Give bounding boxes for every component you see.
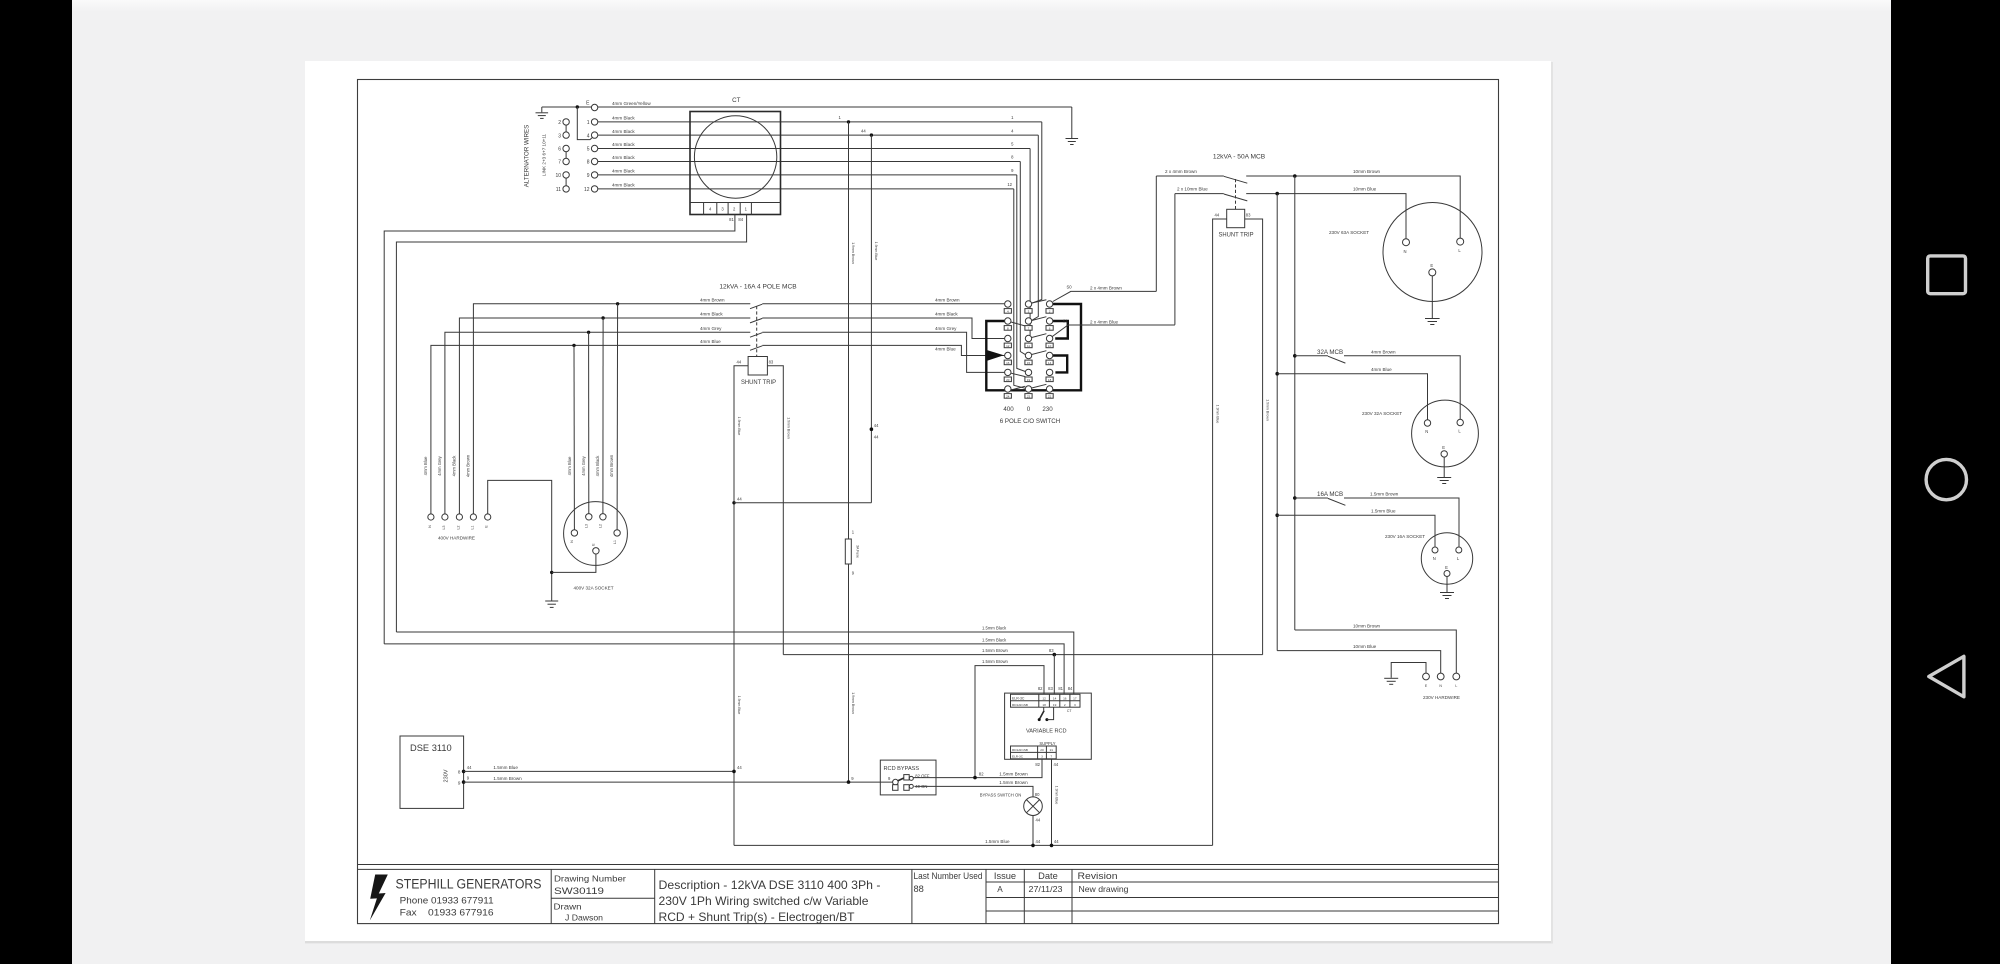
RCD BYPASS box	[880, 760, 936, 795]
wire 1 4mm Black	[598, 121, 1042, 123]
wire ELR 14 drop	[1053, 655, 1055, 695]
svg-text:N: N	[1403, 249, 1406, 254]
svg-text:STEPHILL GENERATORS: STEPHILL GENERATORS	[396, 877, 542, 892]
wire brown drop to socket L1	[616, 304, 619, 530]
ELR input terminal strip	[1011, 694, 1081, 707]
svg-text:6: 6	[558, 147, 561, 153]
ground (400V earth)	[545, 600, 558, 602]
wire 32A MCB input	[1295, 355, 1328, 357]
svg-text:7: 7	[558, 160, 561, 166]
node dot blue to socket N	[572, 344, 575, 347]
svg-text:N: N	[1433, 556, 1436, 561]
svg-text:44: 44	[874, 423, 879, 428]
wire E hardwire to earth riser	[488, 480, 552, 600]
svg-text:8: 8	[458, 769, 461, 774]
title block divider description/last-number	[911, 869, 913, 923]
title block divider drawing-number/description	[654, 869, 656, 923]
svg-text:BYPASS SWITCH ON: BYPASS SWITCH ON	[980, 792, 1022, 797]
svg-text:44: 44	[737, 497, 742, 502]
contact diagonal row5 col1-col2	[1011, 373, 1025, 376]
wire 1.5mm Brown 16A to socket L	[1344, 498, 1459, 547]
terminal 400V hardwire E	[485, 514, 491, 520]
svg-text:1: 1	[587, 120, 590, 126]
wire 10mm Blue from 50A MCB to 63A socket N	[1246, 194, 1406, 239]
ground (230V hardwire earth)	[1384, 677, 1398, 679]
wire supply 20 to bypass 82	[914, 759, 1043, 778]
svg-text:RD1AF1SB: RD1AF1SB	[1012, 703, 1028, 707]
svg-text:4mm Black: 4mm Black	[612, 129, 635, 134]
svg-text:1.5mm Brown: 1.5mm Brown	[999, 780, 1028, 785]
svg-text:230V: 230V	[444, 769, 450, 782]
wire 8 4mm Black	[598, 161, 1021, 163]
title block divider logo/drawing-number	[550, 869, 552, 923]
terminal 9	[591, 172, 597, 178]
svg-text:230V 32A SOCKET: 230V 32A SOCKET	[1362, 411, 1402, 416]
ground (63A socket earth)	[1425, 318, 1440, 320]
svg-text:1.9mm Brown: 1.9mm Brown	[851, 242, 855, 264]
node dot 32A feed	[1293, 354, 1297, 358]
svg-text:4mm Brown: 4mm Brown	[609, 454, 614, 477]
C/O terminal r2c1	[1005, 318, 1011, 324]
socket 400V pin L3	[586, 514, 592, 520]
svg-text:1.5mm Blue: 1.5mm Blue	[985, 839, 1010, 844]
terminal 11	[563, 186, 569, 192]
svg-text:Description - 12kVA DSE 3110 4: Description - 12kVA DSE 3110 400 3Ph -	[659, 879, 881, 892]
wire 4mm Black MCB out to C/O row3	[762, 318, 1004, 339]
busbar S1 link rows2-3 col3	[1053, 321, 1068, 339]
wire 4 drop into C/O	[1032, 135, 1039, 320]
svg-text:S0: S0	[1067, 285, 1073, 290]
svg-text:2 x 4mm Blue: 2 x 4mm Blue	[1090, 320, 1119, 325]
node dot line4 join	[973, 776, 977, 780]
wire 10mm Brown from 50A MCB to 63A socket L	[1246, 176, 1460, 238]
socket 32A pin N	[1424, 420, 1430, 426]
terminal 230V hardwire E	[1423, 673, 1430, 680]
wire 32A E to ground	[1443, 457, 1445, 477]
svg-text:44: 44	[874, 435, 879, 440]
breaker blade 16A	[1328, 498, 1346, 505]
svg-text:1.5mm Brown: 1.5mm Brown	[982, 648, 1009, 653]
wire E terminal to ground	[542, 106, 592, 108]
wire E branch to socket E pin	[552, 554, 596, 572]
svg-text:ELR-3C: ELR-3C	[1012, 755, 1024, 759]
wire net1 riser from wire1	[848, 122, 850, 539]
C/O terminal r5c1	[1005, 369, 1011, 375]
svg-text:82: 82	[1035, 762, 1040, 767]
wire 9 4mm Black	[598, 174, 1017, 176]
svg-text:12kVA - 16A 4 POLE MCB: 12kVA - 16A 4 POLE MCB	[719, 284, 797, 291]
svg-text:J Dawson: J Dawson	[565, 914, 603, 923]
svg-text:18: 18	[1048, 378, 1052, 382]
svg-text:4mm Brown: 4mm Brown	[935, 298, 960, 303]
terminal 400V hardwire L3	[442, 514, 448, 520]
wire 1.5mm Black line2 CT81 to ELR 16	[384, 644, 1064, 694]
socket 16A pin E	[1444, 571, 1450, 577]
svg-text:44: 44	[737, 360, 742, 365]
wire 4mm Brown 32A to socket L	[1344, 356, 1460, 420]
revision table row line 1	[986, 881, 1499, 883]
svg-text:10: 10	[555, 173, 561, 179]
C/O terminal r2c3	[1046, 318, 1052, 324]
node dot net9 riser join	[847, 780, 851, 784]
socket 400V pin E	[593, 548, 599, 554]
terminal 2	[563, 119, 569, 125]
svg-text:400V HARDWIRE: 400V HARDWIRE	[438, 536, 475, 541]
svg-text:DSE 3110: DSE 3110	[410, 743, 452, 753]
white PDF page	[305, 61, 1551, 942]
svg-text:3: 3	[1041, 755, 1043, 759]
svg-text:Last Number Used: Last Number Used	[914, 871, 983, 881]
wire 16A MCB input	[1295, 497, 1328, 499]
node dot 1.5mm blue 16A	[1275, 513, 1279, 517]
revision table row line 3	[986, 910, 1499, 912]
terminal 230V hardwire N	[1437, 673, 1444, 680]
svg-text:4mm Blue: 4mm Blue	[700, 339, 721, 344]
bypass common terminal	[893, 779, 899, 785]
terminal 400V hardwire N	[428, 514, 434, 520]
svg-text:L3: L3	[442, 526, 446, 530]
svg-text:19: 19	[1027, 378, 1031, 382]
terminal 10	[563, 172, 569, 178]
svg-text:1.5mm Blue: 1.5mm Blue	[493, 765, 518, 770]
svg-text:32A MCB: 32A MCB	[1317, 349, 1343, 356]
terminal 5	[591, 145, 597, 151]
socket 400V pin L2	[600, 514, 606, 520]
svg-text:20: 20	[1040, 748, 1044, 752]
svg-text:L2: L2	[599, 524, 603, 528]
svg-text:11: 11	[556, 187, 561, 193]
busbar link rows4-5 col3	[1053, 356, 1067, 373]
C/O terminal r6c2	[1025, 386, 1031, 392]
node dot 44 riser join	[732, 770, 736, 774]
svg-text:4mm Black: 4mm Black	[935, 312, 958, 317]
variable RCD outer box	[1005, 693, 1092, 759]
trip linkage dashed line 50A MCB	[1235, 179, 1237, 209]
logo lightning bolt	[370, 875, 388, 921]
svg-text:83: 83	[769, 360, 774, 365]
wire S0 diagonal and feed	[1053, 291, 1157, 301]
link wire 6-7	[565, 152, 567, 159]
svg-text:Drawn: Drawn	[554, 903, 583, 912]
svg-text:6 POLE C/O SWITCH: 6 POLE C/O SWITCH	[1000, 418, 1061, 425]
svg-text:Phone 01933 677911: Phone 01933 677911	[400, 896, 494, 906]
wire bypass ON to lamp	[914, 786, 1033, 797]
svg-text:80: 80	[1035, 792, 1040, 797]
C/O terminal r4c1	[1005, 352, 1011, 358]
wire 10mm brown riser upper	[1294, 176, 1296, 630]
svg-text:83: 83	[1246, 213, 1251, 218]
C/O terminal r3c1	[1005, 335, 1011, 341]
wire 2 x 4mm Brown into 50A MCB	[1156, 175, 1224, 177]
svg-text:Date: Date	[1038, 871, 1058, 881]
svg-text:10mm Blue: 10mm Blue	[1353, 644, 1377, 649]
C/O terminal r4c2	[1025, 352, 1031, 358]
wire 63A E to ground	[1431, 276, 1433, 318]
node dot black to socket L2	[601, 316, 604, 319]
svg-text:A: A	[997, 885, 1003, 894]
svg-text:230V 16A SOCKET: 230V 16A SOCKET	[1385, 534, 1425, 539]
svg-text:2 x 10mm Blue: 2 x 10mm Blue	[1177, 186, 1208, 191]
ground (E wire earth)	[1066, 138, 1079, 140]
C/O terminal r6c1	[1005, 386, 1011, 392]
wire 4mm Blue N feed	[431, 345, 750, 514]
wire 4mm Black L2 feed	[459, 318, 750, 514]
svg-text:20: 20	[1006, 378, 1010, 382]
svg-text:16: 16	[1006, 361, 1010, 365]
svg-text:81: 81	[1058, 686, 1063, 691]
wire 5 drop into C/O	[1029, 149, 1030, 338]
svg-text:3A Fuse: 3A Fuse	[856, 545, 860, 558]
breaker blade 50A pole 2	[1224, 194, 1248, 201]
wire 4mm Grey L3 feed	[445, 332, 750, 514]
svg-text:4mm Green/Yellow: 4mm Green/Yellow	[612, 101, 651, 106]
svg-text:1.9mm Blue: 1.9mm Blue	[1215, 405, 1219, 424]
DSE 3110 controller box	[400, 736, 464, 808]
svg-text:82: 82	[1038, 686, 1043, 691]
contact diagonal row2 col1-col2	[1011, 322, 1025, 326]
svg-text:RCD + Shunt Trip(s) - Electrog: RCD + Shunt Trip(s) - Electrogen/BT	[659, 911, 855, 924]
C/O terminal r1c1	[1005, 301, 1011, 307]
terminal 6	[563, 145, 569, 151]
230V 32A socket outline	[1412, 400, 1479, 467]
svg-text:82 OFF: 82 OFF	[915, 774, 930, 779]
svg-text:4mm Brown: 4mm Brown	[700, 298, 725, 303]
wire 4 4mm Black	[598, 134, 1039, 136]
breaker blade 50A pole 1	[1224, 176, 1248, 183]
wire DSE pin8 44 1.5mm Blue	[464, 770, 734, 772]
title block divider issue/date	[1023, 869, 1025, 923]
svg-text:1.5mm Blue: 1.5mm Blue	[1371, 509, 1396, 514]
svg-text:400V 32A SOCKET: 400V 32A SOCKET	[573, 586, 613, 591]
title block divider last-number/issue	[985, 869, 987, 923]
svg-text:4mm Grey: 4mm Grey	[581, 455, 586, 475]
contact diagonal row6 col1-col2	[1011, 386, 1025, 390]
bypass switch blade	[898, 778, 904, 781]
C/O terminal r2c2	[1025, 318, 1031, 324]
CT core circle	[694, 116, 776, 198]
svg-text:1.9mm Brown: 1.9mm Brown	[1265, 399, 1269, 421]
node dot 4mm blue 32A	[1275, 372, 1279, 376]
wire 10mm Blue to hardwire N	[1277, 651, 1441, 674]
bypass ON contact	[904, 785, 909, 791]
svg-text:16A MCB: 16A MCB	[1317, 491, 1343, 498]
node dot DSE pin8	[462, 770, 466, 774]
svg-text:4mm Brown: 4mm Brown	[1371, 349, 1396, 354]
svg-text:4mm Black: 4mm Black	[451, 455, 456, 477]
svg-text:Revision: Revision	[1078, 871, 1118, 881]
svg-text:L: L	[1455, 684, 1457, 688]
wire CT 81 to left riser	[384, 215, 735, 644]
shunt trip 2 coil box	[748, 357, 767, 376]
socket 400V pin N	[571, 530, 577, 536]
wire 1 drop into C/O	[1032, 122, 1042, 303]
svg-text:44: 44	[737, 765, 742, 770]
wire S1 diagonal and feed	[1050, 325, 1175, 339]
C/O terminal r5c3	[1046, 369, 1052, 375]
wire 16A E to ground	[1446, 577, 1448, 593]
svg-text:14: 14	[1053, 696, 1057, 700]
svg-text:19: 19	[1053, 703, 1057, 707]
wire E link down to terminal 4	[577, 107, 593, 140]
wire blue drop to socket N	[573, 345, 575, 529]
svg-text:8: 8	[587, 160, 590, 166]
svg-text:RD1AF1SB: RD1AF1SB	[1012, 748, 1028, 752]
terminal 7	[563, 158, 569, 164]
C/O terminal r3c2	[1025, 335, 1031, 341]
svg-text:9: 9	[587, 173, 590, 179]
socket 32A pin E	[1441, 451, 1447, 457]
svg-text:18: 18	[1042, 703, 1046, 707]
svg-text:17: 17	[1073, 696, 1077, 700]
wire lamp to blue link	[1032, 816, 1034, 846]
svg-text:RCD BYPASS: RCD BYPASS	[884, 766, 920, 772]
svg-text:ELR-3C: ELR-3C	[1012, 696, 1025, 700]
wire 4mm Green/Yellow (E)	[598, 106, 1072, 108]
svg-text:400: 400	[1003, 406, 1014, 413]
node dot supply21 join	[1050, 844, 1054, 848]
wire 12 drop into C/O	[1014, 189, 1026, 388]
svg-text:16: 16	[1063, 696, 1067, 700]
socket 63A pin E	[1429, 269, 1436, 276]
wire net9 fuse to DSE/bypass row	[848, 564, 850, 782]
svg-text:Issue: Issue	[994, 871, 1016, 881]
breaker blade pole2	[750, 318, 762, 323]
svg-text:ALTERNATOR WIRES: ALTERNATOR WIRES	[524, 125, 531, 188]
svg-text:84: 84	[1068, 686, 1073, 691]
C/O terminal r3c3	[1046, 335, 1052, 341]
RCD supply terminal strip	[1011, 746, 1057, 759]
node dot DSE pin9	[462, 780, 466, 784]
wire 1.5mm Brown line4 bypass to ELR 12	[975, 666, 1044, 779]
svg-text:44: 44	[861, 128, 866, 133]
svg-text:2: 2	[1064, 703, 1066, 707]
svg-text:L3: L3	[585, 524, 589, 528]
node dot grey to socket L3	[587, 331, 590, 334]
svg-text:81: 81	[729, 217, 734, 222]
wire S0 riser to MCB brown input	[1155, 176, 1157, 291]
svg-text:14: 14	[1048, 361, 1052, 365]
wire 1.5mm Blue 16A to socket N	[1277, 515, 1435, 547]
nav circle button	[1926, 459, 1966, 499]
nav back triangle button	[1929, 656, 1964, 697]
svg-text:21: 21	[1050, 748, 1054, 752]
schematic drawing border	[358, 80, 1499, 924]
svg-text:10mm Brown: 10mm Brown	[1353, 169, 1381, 174]
svg-text:2 x 4mm Brown: 2 x 4mm Brown	[1090, 286, 1122, 291]
svg-text:4: 4	[587, 133, 590, 139]
nav square button	[1928, 256, 1966, 294]
socket 400V pin L1	[614, 530, 620, 536]
wire DSE pin9 1.5mm Brown to bypass	[464, 781, 893, 783]
link wire 2-3	[565, 125, 567, 132]
wire 1.5mm Black line1 CT84 to ELR 17	[396, 632, 1073, 694]
trip linkage dashed line 4 pole MCB	[756, 306, 758, 357]
node dot 16A feed	[1293, 496, 1297, 500]
svg-text:10mm Brown: 10mm Brown	[1353, 624, 1381, 629]
contact diagonal row4 col2-col3	[1032, 351, 1047, 355]
svg-text:1.9mm Blue: 1.9mm Blue	[874, 242, 878, 261]
svg-text:44: 44	[1054, 839, 1059, 844]
socket 32A pin L	[1457, 419, 1463, 425]
svg-text:4mm Black: 4mm Black	[612, 169, 635, 174]
wire 5 4mm Black	[598, 148, 1030, 150]
C/O terminal r6c3	[1046, 386, 1052, 392]
wire shunt trip 1 pin 83 stub	[1245, 219, 1263, 655]
busbar outer loop C/O switch	[986, 304, 1081, 390]
socket 63A pin L	[1457, 238, 1464, 245]
node E junction dot	[576, 105, 579, 108]
node dot brown to socket L1	[616, 302, 619, 305]
svg-text:12: 12	[1042, 696, 1046, 700]
400V 32A socket outline	[564, 502, 628, 566]
wire CT 84 to left riser	[396, 215, 746, 633]
svg-text:E: E	[1445, 565, 1448, 570]
svg-text:1.9mm Brown: 1.9mm Brown	[851, 692, 855, 714]
svg-text:0: 0	[1027, 406, 1031, 413]
wire 8 drop into C/O	[1020, 162, 1025, 355]
svg-text:SW30119: SW30119	[554, 886, 604, 896]
wire 44 crosslink	[734, 502, 871, 504]
breaker blade 32A	[1328, 356, 1346, 363]
wire 4mm Blue 32A to socket N	[1277, 374, 1427, 420]
svg-text:4mm Black: 4mm Black	[612, 116, 635, 121]
svg-text:44: 44	[1036, 818, 1041, 823]
svg-text:1.5mm Black: 1.5mm Black	[982, 625, 1007, 630]
svg-text:4mm Grey: 4mm Grey	[935, 326, 957, 331]
svg-text:44: 44	[1054, 762, 1059, 767]
node dot wire4 / 44 riser	[870, 133, 873, 136]
wire shunt trip 1 pin 44 stub	[1213, 219, 1227, 845]
svg-text:83: 83	[1048, 686, 1053, 691]
wire 44 riser from wire4	[870, 135, 872, 503]
svg-text:L1: L1	[470, 526, 474, 530]
svg-text:44: 44	[1036, 839, 1041, 844]
svg-text:1.9mm Brown: 1.9mm Brown	[786, 417, 790, 439]
lamp bypass indicator	[1024, 797, 1043, 816]
breaker blade pole4	[750, 346, 762, 351]
svg-text:LINK 2+3 6+7 10+11: LINK 2+3 6+7 10+11	[542, 133, 547, 176]
wire: schematic area bottom separator line	[358, 864, 1499, 866]
svg-text:88: 88	[914, 884, 924, 894]
terminal 8	[591, 158, 597, 164]
svg-text:3: 3	[558, 133, 561, 139]
svg-text:5: 5	[587, 147, 590, 153]
bypass OFF contact	[904, 775, 909, 780]
wire 4mm Brown MCB out to C/O row1	[762, 303, 1004, 305]
ground (16A socket earth)	[1440, 592, 1454, 594]
svg-text:12kVA - 50A MCB: 12kVA - 50A MCB	[1213, 154, 1266, 161]
svg-text:1.5mm Brown: 1.5mm Brown	[999, 772, 1028, 777]
svg-text:230: 230	[1042, 406, 1053, 413]
svg-text:S1: S1	[1063, 319, 1069, 324]
wire 4mm Brown L1 feed	[473, 304, 750, 514]
wire 12 4mm Black	[598, 188, 1014, 190]
svg-text:4mm Blue: 4mm Blue	[1371, 367, 1392, 372]
node dot wire1 / 1.9mm riser	[847, 120, 850, 123]
svg-text:10mm Blue: 10mm Blue	[1353, 186, 1377, 191]
svg-text:2: 2	[558, 120, 561, 126]
CT terminal strip	[690, 202, 781, 204]
node dot 44 crosslink left	[732, 501, 735, 504]
svg-text:1.9mm Blue: 1.9mm Blue	[737, 417, 741, 436]
svg-text:12: 12	[584, 187, 590, 193]
terminal 1	[591, 119, 597, 125]
230V 16A socket outline	[1421, 533, 1472, 584]
svg-text:9: 9	[458, 780, 461, 785]
svg-text:4mm Blue: 4mm Blue	[935, 347, 956, 352]
breaker blade pole1	[750, 304, 762, 309]
svg-text:4mm Black: 4mm Black	[595, 455, 600, 477]
